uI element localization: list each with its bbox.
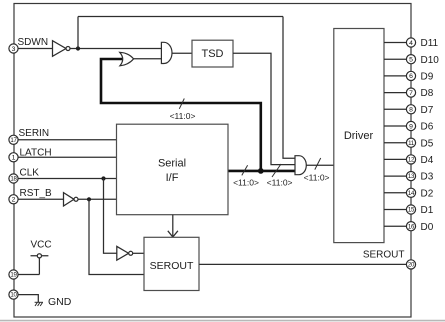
pin 18 xyxy=(9,174,18,183)
svg-text:6: 6 xyxy=(409,73,413,80)
wire G1 output to AND A1 lower input xyxy=(133,58,161,60)
svg-text:D0: D0 xyxy=(421,222,434,233)
junction CLK node xyxy=(101,176,105,180)
svg-text:16: 16 xyxy=(408,223,415,230)
svg-text:CLK: CLK xyxy=(20,167,40,178)
pin 6 xyxy=(406,71,415,80)
inverter U2 (CLK to SEROUT) xyxy=(117,246,129,260)
svg-text:1: 1 xyxy=(12,155,16,162)
svg-text:4: 4 xyxy=(409,40,413,47)
wire GND pin10 xyxy=(14,295,38,302)
pin 9 xyxy=(406,121,415,130)
svg-text:Driver: Driver xyxy=(344,130,374,142)
block Serial I/F xyxy=(117,124,229,215)
wire D7 stub xyxy=(384,108,411,110)
svg-text:3: 3 xyxy=(12,46,16,53)
wire SERIN pin17 to Serial I/F xyxy=(14,139,117,141)
svg-text:D3: D3 xyxy=(421,172,434,183)
wire D10 stub xyxy=(384,58,411,60)
svg-text:TSD: TSD xyxy=(202,48,224,60)
wire VCC pin19 xyxy=(14,274,39,276)
wire U2 output to SEROUT block xyxy=(133,252,144,254)
svg-text:D11: D11 xyxy=(421,38,439,49)
svg-text:<11:0>: <11:0> xyxy=(304,173,330,183)
pin 13 xyxy=(406,172,415,181)
arrowhead xyxy=(168,231,178,237)
svg-text:D9: D9 xyxy=(421,72,434,83)
wire LATCH pin1 to Serial I/F xyxy=(14,156,117,158)
svg-text:D7: D7 xyxy=(421,105,434,116)
svg-text:Serial: Serial xyxy=(158,158,186,170)
wire drop to AND A2 top input xyxy=(283,17,295,159)
wire RST drop to SEROUT block xyxy=(89,199,144,274)
svg-text:D6: D6 xyxy=(421,122,434,133)
wire D11 stub xyxy=(384,42,411,44)
wire D3 stub xyxy=(384,175,411,177)
svg-text:<11:0>: <11:0> xyxy=(170,111,196,121)
power VCC symbol xyxy=(31,239,52,274)
wire A2 output to Driver xyxy=(306,164,334,166)
svg-text:SEROUT: SEROUT xyxy=(150,260,194,272)
bus slash on serial output xyxy=(242,165,248,175)
svg-text:18: 18 xyxy=(10,176,17,183)
junction SDWN_N xyxy=(76,46,80,50)
svg-text:GND: GND xyxy=(48,296,72,308)
bus slash on A2 output xyxy=(315,158,321,170)
and-gate A2 xyxy=(295,156,306,175)
ground symbol xyxy=(35,302,43,306)
wire SDWN pin3 to inverter xyxy=(14,48,53,50)
block SEROUT xyxy=(144,237,199,290)
svg-text:SEROUT: SEROUT xyxy=(363,250,405,261)
pin 20 xyxy=(406,260,415,269)
junction RST node xyxy=(87,197,91,201)
pin 1 xyxy=(9,153,18,162)
wire D9 stub xyxy=(384,75,411,77)
pin 17 xyxy=(9,135,18,144)
svg-text:9: 9 xyxy=(409,123,413,130)
svg-text:I/F: I/F xyxy=(166,172,179,184)
pin 12 xyxy=(406,155,415,164)
pin 5 xyxy=(406,55,415,64)
pin 15 xyxy=(406,205,415,214)
svg-text:D5: D5 xyxy=(421,138,434,149)
and-gate A1 xyxy=(161,42,172,63)
inverter U3 bubble xyxy=(74,197,78,201)
pin 3 xyxy=(9,44,18,53)
pin 2 xyxy=(9,195,18,204)
wire A1 output to TSD xyxy=(172,52,192,54)
block Driver xyxy=(334,29,384,243)
svg-text:RST_B: RST_B xyxy=(20,188,53,199)
svg-text:D8: D8 xyxy=(421,88,434,99)
inverter U3 (RST_B) xyxy=(64,193,75,206)
svg-text:8: 8 xyxy=(409,107,413,114)
pin 19 xyxy=(9,270,18,279)
wire D5 stub xyxy=(384,142,411,144)
inverter U1 (SDWN) xyxy=(53,41,67,57)
pin 7 xyxy=(406,88,415,97)
inverter U2 bubble xyxy=(129,251,133,255)
wire top horizontal run xyxy=(78,16,283,18)
wire junction up xyxy=(77,17,79,49)
pin 16 xyxy=(406,222,415,231)
svg-text:SDWN: SDWN xyxy=(18,37,49,48)
bus slash on feedback top xyxy=(179,99,184,109)
svg-text:20: 20 xyxy=(408,262,415,269)
bus feedback loop (12-bit) xyxy=(101,59,261,171)
svg-text:5: 5 xyxy=(409,57,413,64)
svg-text:19: 19 xyxy=(10,272,17,279)
svg-text:<11:0>: <11:0> xyxy=(233,177,259,187)
svg-text:D4: D4 xyxy=(421,155,434,166)
wire CLK pin18 to Serial I/F xyxy=(14,178,117,180)
svg-text:15: 15 xyxy=(408,207,415,214)
wire D4 stub xyxy=(384,158,411,160)
svg-text:D1: D1 xyxy=(421,205,434,216)
svg-text:7: 7 xyxy=(409,90,413,97)
block TSD xyxy=(192,40,233,67)
wire D8 stub xyxy=(384,92,411,94)
wire SEROUT to pin20 xyxy=(199,263,411,265)
svg-text:11: 11 xyxy=(408,140,415,147)
svg-text:D2: D2 xyxy=(421,188,434,199)
bus slash near A2 input xyxy=(272,164,281,177)
wire RST_B pin2 to inverter xyxy=(14,198,64,200)
wire Serial I/F to SEROUT arrow xyxy=(172,215,174,237)
wire U3 output to Serial I/F xyxy=(78,198,117,200)
wire CLK drop to inverter U2 xyxy=(104,179,117,254)
or-gate G1 xyxy=(120,52,134,66)
svg-text:SERIN: SERIN xyxy=(19,128,50,139)
wire D6 stub xyxy=(384,125,411,127)
bus Serial I/F output to AND A2 xyxy=(228,170,295,173)
pin 11 xyxy=(406,138,415,147)
svg-text:<11:0>: <11:0> xyxy=(267,177,293,187)
wire TSD output to AND A2 middle input xyxy=(233,53,295,164)
svg-text:13: 13 xyxy=(408,173,415,180)
wire D1 stub xyxy=(384,209,411,211)
inverter U1 bubble xyxy=(66,47,70,51)
pin 14 xyxy=(406,188,415,197)
pin 4 xyxy=(406,38,415,47)
svg-text:12: 12 xyxy=(408,157,415,164)
svg-text:2: 2 xyxy=(12,197,16,204)
svg-text:14: 14 xyxy=(408,190,415,197)
svg-text:10: 10 xyxy=(10,292,17,299)
wire inverter output to AND A1 top input xyxy=(70,48,161,50)
wire D0 stub xyxy=(384,225,411,227)
svg-text:D10: D10 xyxy=(421,55,440,66)
svg-text:VCC: VCC xyxy=(31,239,52,250)
svg-text:17: 17 xyxy=(10,137,17,144)
junction bus node xyxy=(258,168,264,174)
wire D2 stub xyxy=(384,192,411,194)
page separator line xyxy=(0,320,445,322)
svg-text:LATCH: LATCH xyxy=(20,147,52,158)
pin 8 xyxy=(406,105,415,114)
pin 10 xyxy=(9,290,18,299)
